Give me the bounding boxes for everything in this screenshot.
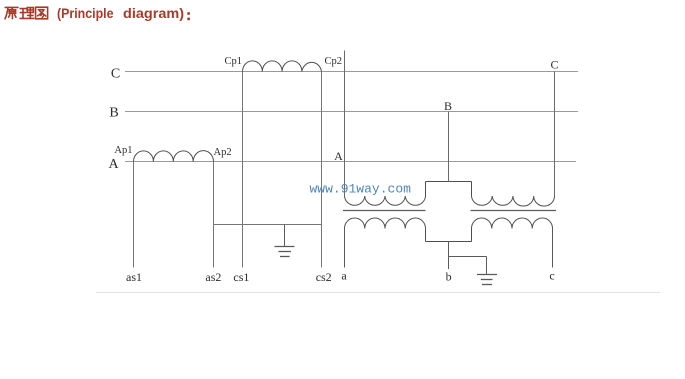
title 图 (hanzi stroke drawing) [36, 7, 48, 19]
svg-text:c: c [549, 269, 554, 283]
svg-text:C: C [550, 58, 558, 72]
svg-text:(Principle: (Principle [57, 5, 114, 21]
bus line A [125, 161, 576, 163]
wire box top-left edge [425, 182, 427, 197]
title 原 (hanzi stroke drawing) [5, 7, 18, 18]
svg-text:b: b [446, 270, 452, 284]
svg-text:www.91way.com: www.91way.com [310, 182, 412, 197]
svg-text:cs2: cs2 [316, 270, 332, 284]
winding T2 primary left (top-left coil) [345, 196, 426, 205]
ground 2 symbol [477, 275, 497, 285]
svg-text:B: B [444, 99, 452, 113]
core T2 left [343, 210, 426, 212]
svg-text:Ap2: Ap2 [214, 147, 232, 158]
wire as1 [133, 162, 135, 268]
ground 2 stem [486, 257, 488, 275]
svg-text:C: C [111, 67, 120, 82]
svg-text:as2: as2 [205, 270, 221, 284]
wire C drop vertical [554, 72, 556, 197]
wire cs1 [242, 72, 244, 268]
bus line B [125, 111, 578, 113]
winding Ap1-Ap2 (phase A primary coil) [134, 151, 214, 162]
svg-text:B: B [109, 106, 118, 121]
core T2 right [471, 210, 557, 212]
bus line C [125, 71, 578, 73]
wire box bottom-right edge [471, 229, 473, 242]
svg-text:as1: as1 [126, 270, 142, 284]
wire ground 2 branch [449, 256, 487, 258]
ground 1 symbol [275, 247, 295, 257]
svg-text:A: A [108, 157, 119, 172]
wire terminal c [552, 229, 554, 268]
wire terminal a [344, 229, 346, 268]
title fullwidth colon [187, 12, 190, 20]
title 理 (hanzi stroke drawing) [20, 8, 34, 19]
wire terminal b [448, 242, 450, 270]
winding Cp1-Cp2 (phase C primary coil) [243, 61, 322, 72]
winding T2 secondary right (bottom-right coil) [472, 218, 553, 229]
wire box top edge [426, 181, 472, 183]
svg-text:Cp2: Cp2 [325, 56, 343, 67]
wire box bottom-left edge [425, 229, 427, 242]
svg-text:Ap1: Ap1 [114, 145, 132, 156]
svg-text:a: a [341, 269, 347, 283]
svg-text:A: A [334, 149, 343, 163]
winding T2 primary right (top-right coil) [472, 196, 555, 206]
wire cs2 [321, 72, 323, 268]
wire as2 [213, 162, 215, 268]
svg-text:Cp1: Cp1 [224, 56, 242, 67]
svg-text:diagram): diagram) [123, 5, 184, 21]
faint cell border bottom [96, 292, 660, 294]
wire A tap vertical [344, 51, 346, 197]
winding T2 secondary left (bottom-left coil) [345, 218, 426, 229]
wire secondary link as2-cs2 [214, 224, 322, 226]
wire box top-right edge [471, 182, 473, 197]
svg-text:cs1: cs1 [233, 270, 249, 284]
wire box bottom edge [426, 241, 472, 243]
ground 1 stem [284, 225, 286, 247]
wire B tap vertical [448, 112, 450, 182]
